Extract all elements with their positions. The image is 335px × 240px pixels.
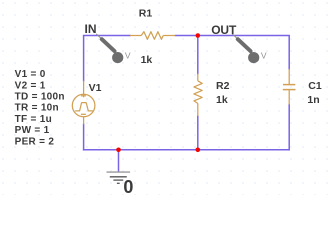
svg-text:R1: R1 <box>139 8 153 20</box>
svg-text:V2 = 1: V2 = 1 <box>15 80 46 91</box>
svg-text:PER = 2: PER = 2 <box>15 136 55 147</box>
svg-text:1k: 1k <box>216 94 228 106</box>
svg-text:OUT: OUT <box>211 23 237 37</box>
svg-text:V1 = 0: V1 = 0 <box>15 69 46 80</box>
svg-text:IN: IN <box>85 22 97 36</box>
svg-text:TD = 100n: TD = 100n <box>15 92 65 103</box>
svg-text:1k: 1k <box>141 54 153 66</box>
svg-text:TF = 1u: TF = 1u <box>15 114 52 125</box>
svg-text:0: 0 <box>123 177 133 195</box>
svg-text:1n: 1n <box>307 94 319 106</box>
svg-text:V1: V1 <box>89 82 102 94</box>
svg-text:C1: C1 <box>308 80 322 92</box>
svg-text:PW = 1: PW = 1 <box>15 125 50 136</box>
svg-text:R2: R2 <box>216 80 230 92</box>
svg-text:V: V <box>261 51 267 61</box>
svg-text:V: V <box>125 51 131 61</box>
svg-text:TR = 10n: TR = 10n <box>15 103 59 114</box>
